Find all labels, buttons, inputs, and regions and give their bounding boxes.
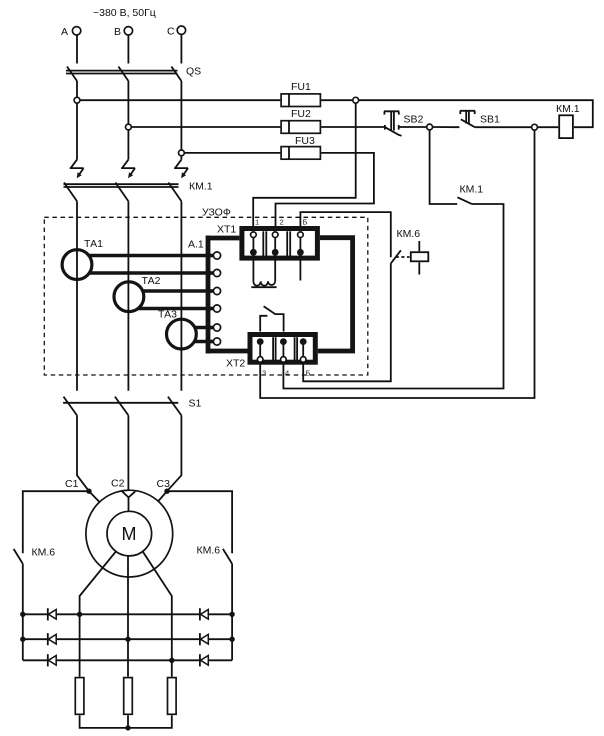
- wire junction1 down to KM.1 aux contact: [430, 130, 458, 204]
- svg-text:КМ.6: КМ.6: [397, 228, 421, 240]
- svg-text:С: С: [167, 26, 175, 38]
- junction node after SB2: [427, 124, 433, 130]
- diode VD2: [48, 633, 56, 645]
- svg-text:FU3: FU3: [295, 135, 315, 147]
- junction C1: [86, 489, 91, 494]
- thick wire XT1 right to XT2 right: [318, 238, 353, 351]
- contact KM.6 left: [14, 547, 56, 564]
- wire node B to FU2: [131, 126, 280, 128]
- svg-text:КМ.6: КМ.6: [197, 545, 221, 557]
- pin 6 of A.1: [210, 338, 221, 345]
- junction left row1: [20, 612, 25, 617]
- junction lead1 row1: [77, 612, 82, 617]
- switch S1: [63, 397, 201, 416]
- node phase C: [179, 150, 185, 156]
- wire junction2 to coil KM.1: [537, 126, 558, 128]
- wire C1 to left branch: [23, 491, 89, 553]
- terminal block XT1: [217, 224, 317, 259]
- node phase A: [74, 97, 80, 103]
- wire phase A S1 down: [77, 415, 89, 491]
- XT2 terminal B: [300, 338, 307, 362]
- svg-text:~380 В, 50Гц: ~380 В, 50Гц: [93, 7, 156, 19]
- current transformer TA2: [114, 275, 161, 312]
- contact of A.1 above XT2: [260, 306, 283, 331]
- XT2 terminal 3: [257, 338, 264, 362]
- block A.1 left bar: [188, 236, 248, 354]
- wire junction1 to SB1: [433, 126, 460, 128]
- wire phase B S1 down: [127, 415, 129, 490]
- coil KM.1: [556, 103, 580, 138]
- junction lead2 row2: [125, 637, 130, 642]
- trip arrow phase B: [121, 160, 135, 179]
- svg-text:КМ.1: КМ.1: [460, 184, 484, 196]
- wire FU3 to XT1 terminal 2: [276, 153, 374, 226]
- wire KM.1 aux to XT2 terminal 4: [283, 204, 503, 389]
- pushbutton SB1: [460, 111, 500, 127]
- secondary lead TA3 lower: [192, 340, 213, 343]
- junction left row2: [20, 637, 25, 642]
- junction right row1: [229, 612, 234, 617]
- svg-text:М: М: [122, 524, 137, 544]
- winding between XT1 terminals 1 and 2: [251, 254, 276, 287]
- wire phase C S1 down: [167, 415, 181, 491]
- resistor R3: [168, 678, 177, 715]
- terminal B: [114, 26, 133, 64]
- wire FU2 to SB2: [321, 126, 385, 128]
- contactor KM.1 main contacts: [64, 181, 213, 202]
- element KM.6: [411, 241, 429, 275]
- svg-text:Б: Б: [306, 369, 311, 378]
- wire phase B QS to node: [127, 81, 129, 124]
- svg-text:3: 3: [262, 369, 266, 378]
- dashed box UZOF: [44, 207, 368, 376]
- wire XT1 terminal B stub down: [299, 254, 301, 281]
- switch QS: [66, 66, 201, 82]
- resistor R2: [124, 678, 133, 715]
- wire SB2 to junction1: [399, 126, 427, 128]
- motor rotor lead 2: [127, 556, 129, 677]
- junction lead3 row3: [169, 658, 174, 663]
- wire right branch down: [231, 564, 233, 661]
- motor rotor lead 1: [80, 552, 116, 677]
- wire C1 into motor: [89, 491, 100, 502]
- wire left branch down: [22, 564, 24, 661]
- svg-text:В: В: [114, 26, 121, 38]
- svg-text:ТА2: ТА2: [142, 275, 161, 287]
- node phase B: [125, 124, 131, 130]
- wire XT1 terminal B to KM.6: [300, 212, 390, 257]
- svg-text:Б: Б: [303, 218, 308, 227]
- wire resistor bottoms bus: [80, 715, 172, 728]
- junction right row2: [229, 637, 234, 642]
- svg-text:4: 4: [285, 369, 289, 378]
- motor M stator circle: [86, 490, 173, 577]
- junction after FU1: [353, 97, 359, 103]
- wire phase A QS to node: [76, 81, 78, 97]
- terminal block XT2: [226, 335, 315, 370]
- contact KM.1 aux: [457, 184, 483, 205]
- svg-text:А: А: [61, 26, 68, 38]
- wire phase A node down: [76, 103, 78, 160]
- trip arrow phase C: [174, 160, 188, 179]
- svg-text:С2: С2: [111, 478, 125, 490]
- svg-text:SB2: SB2: [404, 114, 424, 126]
- motor C2 entry notch: [122, 491, 135, 511]
- secondary lead TA1 upper: [89, 254, 213, 257]
- wire FU1 to junction: [321, 99, 353, 101]
- current transformer TA3: [158, 309, 196, 350]
- wire phase B through box: [127, 201, 129, 390]
- svg-text:ТА1: ТА1: [84, 238, 103, 250]
- rectifier row 1 wire: [23, 613, 232, 615]
- svg-text:SB1: SB1: [480, 114, 500, 126]
- secondary lead TA2 lower: [138, 307, 213, 310]
- junction node after SB1: [532, 124, 538, 130]
- dashed link KM.6: [396, 256, 410, 258]
- motor rotor lead 3: [143, 552, 172, 677]
- wire junction to top right corner: [359, 100, 593, 127]
- pin 5 of A.1: [210, 324, 221, 331]
- fuse FU3: [280, 135, 321, 159]
- svg-text:КМ.1: КМ.1: [189, 181, 213, 193]
- wire node A to FU1: [80, 99, 280, 101]
- fuse FU1: [280, 81, 321, 107]
- wire KM.6 to XT2 terminal B: [303, 263, 391, 381]
- resistor R1: [75, 678, 84, 715]
- secondary lead TA3 upper: [192, 326, 213, 329]
- svg-text:КМ.6: КМ.6: [32, 547, 56, 559]
- motor M rotor circle: [107, 511, 152, 556]
- contact KM.6 right: [197, 545, 233, 564]
- rectifier row 2 wire: [23, 638, 232, 640]
- svg-text:QS: QS: [186, 66, 201, 78]
- XT1 terminal 1: [250, 232, 257, 256]
- diode VD6: [200, 654, 208, 666]
- svg-text:FU1: FU1: [291, 81, 311, 93]
- terminal A: [61, 26, 81, 64]
- svg-text:FU2: FU2: [291, 108, 311, 120]
- svg-text:ХТ2: ХТ2: [226, 358, 245, 370]
- current transformer TA1: [62, 238, 103, 280]
- junction C3: [164, 489, 169, 494]
- wire phase B node down: [127, 130, 129, 160]
- XT2 terminal 4: [280, 338, 287, 362]
- wire phase A through box: [76, 201, 78, 390]
- rectifier row 3 wire: [23, 659, 232, 661]
- svg-text:ТА3: ТА3: [158, 309, 177, 321]
- pin 3 of A.1: [210, 287, 221, 294]
- secondary lead TA2 upper: [140, 289, 213, 292]
- wire phase C through box: [180, 201, 182, 390]
- wire junction down to XT1 terminal 1: [253, 103, 356, 226]
- wire C3 to right branch: [167, 491, 232, 553]
- diode VD1: [48, 608, 56, 620]
- diode VD3: [48, 654, 56, 666]
- pushbutton SB2: [384, 111, 424, 136]
- diode VD4: [200, 608, 208, 620]
- pin 2 of A.1: [210, 269, 221, 276]
- terminal C: [167, 26, 186, 64]
- wire phase C node down: [180, 156, 182, 160]
- wire phase C QS to node: [180, 81, 182, 150]
- junction bottom bus: [125, 725, 130, 730]
- svg-text:1: 1: [255, 218, 259, 227]
- svg-text:S1: S1: [189, 398, 202, 410]
- wire node C to FU3: [184, 152, 280, 154]
- contact KM.6: [391, 228, 420, 263]
- svg-text:А.1: А.1: [188, 239, 204, 251]
- svg-text:ХТ1: ХТ1: [217, 224, 236, 236]
- trip arrow phase A: [70, 160, 84, 179]
- svg-text:КМ.1: КМ.1: [556, 103, 580, 115]
- wire junction2 down to XT2 terminal 3: [260, 130, 534, 398]
- svg-text:2: 2: [280, 218, 284, 227]
- fuse FU2: [280, 108, 321, 133]
- pin 4 of A.1: [210, 305, 221, 312]
- svg-text:С1: С1: [65, 478, 79, 490]
- wire SB1 to junction2: [475, 126, 532, 128]
- wire C3 into motor: [158, 491, 167, 501]
- XT1 terminal B: [297, 232, 304, 256]
- diode VD5: [200, 633, 208, 645]
- secondary lead TA1 lower: [89, 271, 213, 274]
- pin 1 of A.1: [210, 252, 221, 259]
- XT1 terminal 2: [272, 232, 279, 256]
- svg-text:С3: С3: [157, 478, 171, 490]
